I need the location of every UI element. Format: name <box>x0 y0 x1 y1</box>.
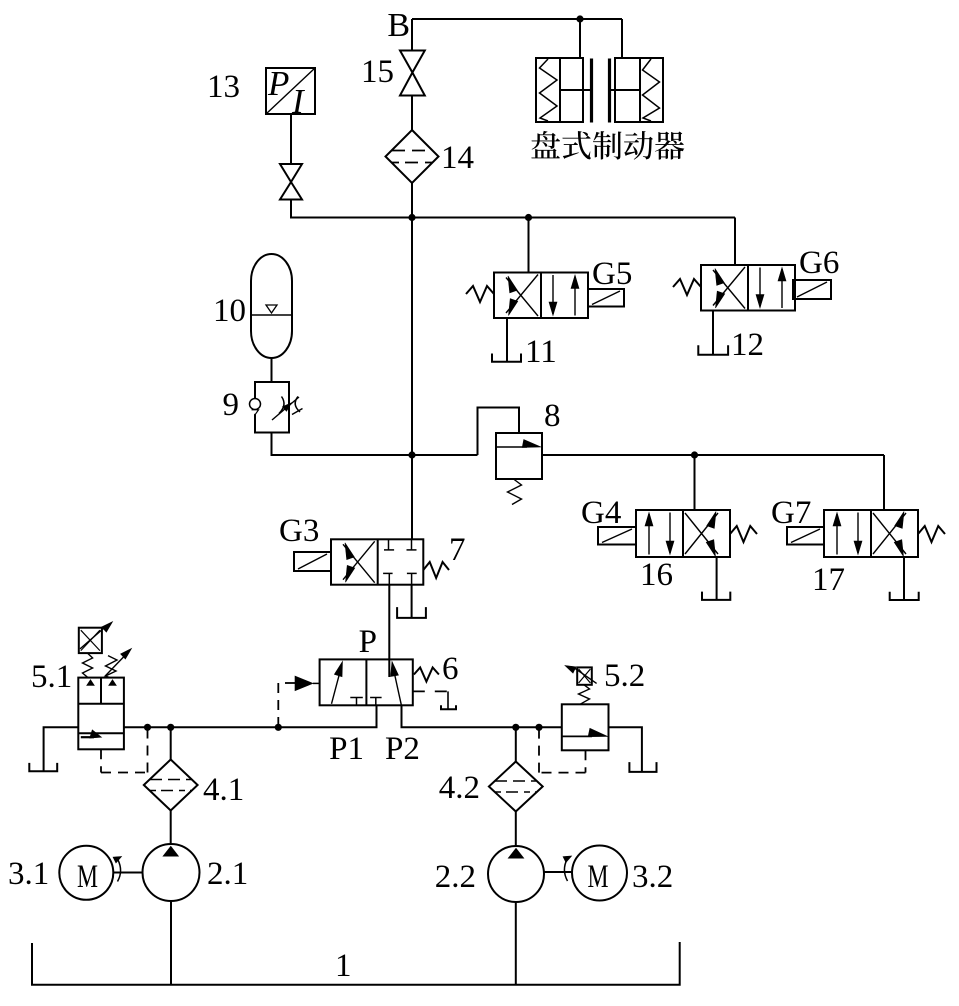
valve 5.1 pilot X box <box>79 628 102 653</box>
solenoid G6 <box>793 280 831 299</box>
wire bus y=455 right of valve 8 <box>542 454 884 456</box>
wire valve 12 drain <box>712 311 714 355</box>
svg-text:B: B <box>387 7 410 44</box>
svg-text:P1: P1 <box>329 731 364 767</box>
valve 6 pilot dashed line <box>278 682 295 684</box>
svg-text:11: 11 <box>525 334 557 370</box>
wire down to valve 16 <box>694 455 696 510</box>
wire horizontal bus y=217 <box>412 217 735 219</box>
node junction filter 4.2 branch <box>512 724 519 731</box>
svg-text:M: M <box>77 859 98 895</box>
valve 5.1 adjust arrow 1 <box>80 628 104 649</box>
solenoid G5 <box>588 289 624 307</box>
valve 6 body <box>320 659 413 705</box>
node junction to valve 16 <box>691 451 698 458</box>
filter 4.2 dashed lines <box>495 780 536 782</box>
valve 16 body <box>636 510 730 557</box>
wire right brake feed <box>621 19 623 58</box>
tank under valve 7 <box>397 607 426 618</box>
node junction pilot of valve 6 <box>275 724 282 731</box>
tank left of valve 5.1 <box>29 763 57 771</box>
valve 7 blocked ports <box>388 539 390 550</box>
wire main vertical x=412 <box>411 218 413 540</box>
shutoff valve below 13 <box>280 164 302 200</box>
check valve 8 body <box>496 433 542 479</box>
valve 5.2 adjust arrow <box>573 667 597 683</box>
check valve 8 pilot loop <box>478 408 520 456</box>
node junction branch to valve 11 <box>525 214 532 221</box>
valve 17 spring <box>918 526 945 542</box>
solenoid G7 <box>787 527 824 545</box>
valve 5.1 dashed pilot <box>100 749 102 772</box>
svg-text:10: 10 <box>213 293 246 329</box>
wire valve 11 drain <box>506 318 508 362</box>
accumulator 10 <box>251 254 292 358</box>
valve 7 left X arrows <box>343 544 375 582</box>
svg-text:3.2: 3.2 <box>632 859 673 895</box>
motor 3.1 <box>59 846 113 900</box>
valve 5.2 pilot X box <box>577 667 592 684</box>
valve 5.1 body <box>78 678 124 750</box>
valve 12 spring <box>673 279 701 295</box>
svg-text:16: 16 <box>640 557 673 593</box>
svg-text:15: 15 <box>361 54 394 90</box>
wire shutoff valve down and east <box>291 200 412 218</box>
valve 7 spring <box>423 562 449 578</box>
filter 4.1 diamond <box>144 760 198 811</box>
wire throttle 9 down and east to main <box>272 433 413 456</box>
wire accumulator to throttle 9 <box>271 358 273 382</box>
throttle 9 gauge circle <box>250 399 261 410</box>
disc brake left spring <box>540 59 558 121</box>
svg-text:6: 6 <box>442 651 459 687</box>
svg-text:13: 13 <box>207 69 240 105</box>
valve 5.2 spring <box>579 685 590 705</box>
svg-text:G4: G4 <box>581 495 621 531</box>
valve 6 drain dashed <box>413 690 448 692</box>
valve 5.2 body <box>562 704 609 750</box>
node junction on top line <box>576 15 583 22</box>
pump 2.1 <box>143 844 200 901</box>
disc brake left caliper <box>536 58 583 122</box>
wire top line from node B to brake feeds <box>412 18 622 20</box>
svg-text:17: 17 <box>812 562 845 598</box>
solenoid G4 <box>598 527 636 545</box>
tank right of valve 5.2 <box>629 762 656 772</box>
svg-text:8: 8 <box>544 398 561 434</box>
node junction 5.1 pilot <box>144 724 151 731</box>
valve 5.1 spring 1 <box>83 653 93 678</box>
wire down to valve 11 <box>528 218 530 273</box>
wire filter 14 down to junction <box>411 183 413 218</box>
svg-text:2.2: 2.2 <box>435 859 476 895</box>
wire valve 7 drain <box>411 585 413 618</box>
node junction 5.2 pilot <box>535 724 542 731</box>
svg-text:P2: P2 <box>385 731 420 767</box>
valve 17 body <box>824 510 918 557</box>
svg-text:M: M <box>588 859 609 895</box>
valve 5.1 adjust arrow 2 <box>105 657 124 676</box>
wire valve 7 to valve 6 P <box>388 585 390 677</box>
valve 16 spring <box>730 526 757 542</box>
svg-text:G6: G6 <box>799 245 839 281</box>
wire valve 5.1 left drain <box>44 727 79 771</box>
check valve 8 flow arrow <box>496 446 527 448</box>
valve 11 body <box>494 273 588 319</box>
svg-text:G5: G5 <box>592 256 632 292</box>
filter 4.1 dashed lines <box>150 779 191 781</box>
svg-text:4.2: 4.2 <box>439 770 480 806</box>
valve 6 left arrow <box>332 665 342 704</box>
wire main bus y=455 left part <box>412 454 478 456</box>
svg-text:G7: G7 <box>771 495 811 531</box>
rotation arrow 3.2 <box>564 859 567 881</box>
valve 5.2 flow arrow <box>562 735 592 737</box>
shutoff valve 15 <box>400 51 425 96</box>
disc brake left piston rod <box>560 89 591 91</box>
filter 14 dashed lines <box>392 150 432 152</box>
wire P2 down <box>402 705 562 727</box>
pump 2.2 <box>488 846 544 902</box>
wire to filter 4.2 <box>515 727 517 762</box>
filter 4.2 diamond <box>489 762 543 812</box>
throttle 9 restrictor arcs <box>279 397 284 414</box>
wire valve 5.2 outlet drain <box>609 727 642 772</box>
wire valve 15 to filter 14 <box>411 96 413 131</box>
svg-text:3.1: 3.1 <box>8 856 49 892</box>
accumulator gas triangle <box>266 305 277 313</box>
motor 3.2 <box>572 846 627 901</box>
wire pump 2.1 suction <box>170 901 172 985</box>
valve 5.2 dashed pilot <box>585 750 587 772</box>
wire valve 16 drain <box>716 557 718 600</box>
tank under valve 11 <box>492 354 521 362</box>
pressure transducer 13 box <box>266 68 315 114</box>
tank under valve 16 <box>702 592 730 600</box>
throttle 9 adjust arrow <box>272 397 299 420</box>
wire filter 4.1 to pump 2.1 <box>170 811 172 845</box>
wire transducer to shutoff valve <box>290 114 292 164</box>
wire corner down to valve 17 <box>883 455 885 510</box>
node junction main line x=412 <box>408 214 415 221</box>
svg-text:9: 9 <box>223 387 240 423</box>
valve 7 body <box>331 539 423 584</box>
svg-text:7: 7 <box>449 532 466 568</box>
tank 1 reservoir <box>32 942 680 985</box>
wire P1 down <box>124 705 377 727</box>
label disc brake text 盘式制动器 <box>531 131 684 160</box>
disc brake disc plates <box>590 59 593 123</box>
wire corner down to valve 12 <box>734 218 736 266</box>
valve 6 blocked ports <box>350 697 363 699</box>
throttle 9 box <box>255 382 289 433</box>
valve 6 pilot arrow <box>295 676 313 691</box>
shaft motor 3.1 to pump 2.1 <box>113 872 143 874</box>
wire pump 2.2 suction <box>515 902 517 985</box>
tank right of valve 6 <box>441 705 456 709</box>
wire valve 17 drain <box>903 557 905 600</box>
solenoid G3 <box>294 552 331 571</box>
svg-text:5.1: 5.1 <box>31 659 72 695</box>
tank under valve 12 <box>698 345 728 355</box>
rotation arrow 3.1 <box>118 860 121 882</box>
tank under valve 17 <box>890 592 919 600</box>
disc brake right caliper <box>615 58 663 122</box>
valve 11 spring <box>466 286 494 302</box>
check valve 8 spring <box>508 479 522 505</box>
wire left brake feed <box>579 19 581 58</box>
valve 5.1 spring 2 <box>106 656 118 678</box>
valve 5.1 check triangles <box>87 680 95 686</box>
svg-text:4.1: 4.1 <box>203 772 244 808</box>
valve 6 spring <box>414 668 439 682</box>
wire to filter 4.1 <box>170 727 172 760</box>
svg-text:14: 14 <box>441 140 474 176</box>
shaft pump 2.2 to motor 3.2 <box>544 871 573 873</box>
svg-text:12: 12 <box>731 327 764 363</box>
svg-text:G3: G3 <box>279 513 319 549</box>
valve 5.1 flow arrow <box>81 736 94 738</box>
valve 12 body <box>701 265 795 311</box>
svg-text:P: P <box>267 64 289 103</box>
disc brake right spring <box>643 59 660 121</box>
svg-text:2.1: 2.1 <box>207 856 248 892</box>
wire filter 4.2 to pump 2.2 <box>515 812 517 847</box>
disc brake right piston rod <box>609 89 640 91</box>
svg-text:5.2: 5.2 <box>604 658 645 694</box>
valve 6 right arrow <box>393 666 402 705</box>
node junction x=412 y=455 <box>408 451 415 458</box>
svg-text:1: 1 <box>335 948 352 984</box>
node junction filter 4.1 branch <box>167 724 174 731</box>
filter 14 diamond <box>386 130 439 183</box>
svg-text:P: P <box>359 624 377 660</box>
